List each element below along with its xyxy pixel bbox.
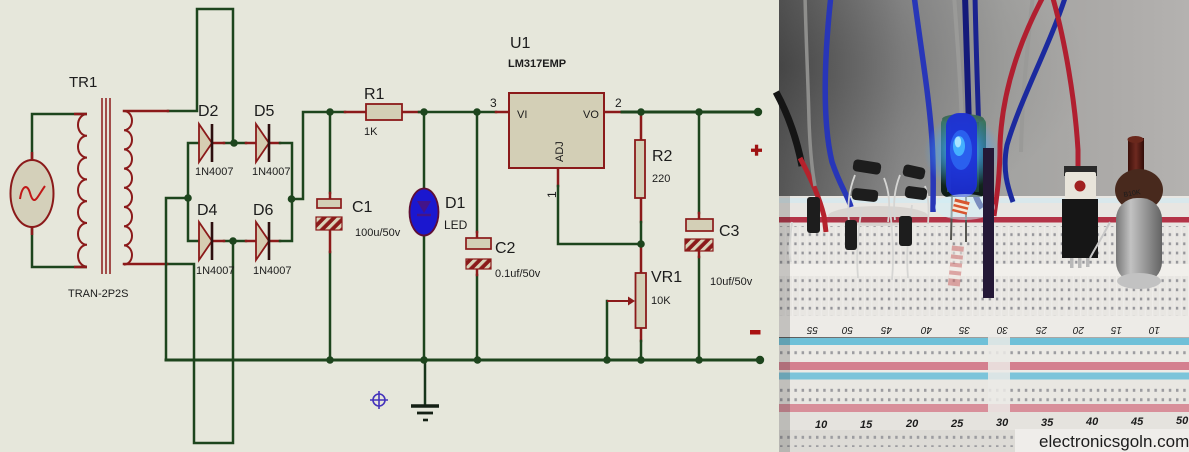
svg-text:30: 30 — [996, 417, 1009, 429]
jumper wire gray B — [954, 0, 962, 130]
diode D6 — [256, 222, 269, 260]
wire R2 to ADJ node — [640, 222, 643, 244]
wire ground tap — [424, 360, 427, 404]
node VR1 bottom — [637, 356, 645, 364]
svg-text:55: 55 — [806, 324, 818, 335]
wire C2 red stubs — [476, 232, 479, 275]
svg-text:40: 40 — [920, 324, 932, 335]
svg-text:15: 15 — [1110, 324, 1122, 335]
LED D1 — [410, 189, 439, 236]
wire D5 cathode out — [268, 142, 280, 145]
jumper wire blue 1 — [825, 0, 851, 207]
svg-text:VR1: VR1 — [651, 269, 682, 286]
svg-text:30: 30 — [996, 324, 1008, 335]
svg-text:D5: D5 — [254, 103, 275, 120]
svg-text:1K: 1K — [364, 126, 378, 138]
diode D2 — [199, 124, 212, 162]
svg-text:40: 40 — [1085, 416, 1099, 428]
svg-text:25: 25 — [1035, 324, 1048, 335]
node output minus end — [756, 356, 764, 364]
wire C3 branch — [698, 112, 701, 360]
node C2 bottom — [474, 356, 482, 364]
wire D6 cathode out — [268, 240, 280, 243]
node D2-D5 junction — [230, 139, 238, 147]
node C3 top — [695, 108, 703, 116]
svg-text:electronicsgoln.com: electronicsgoln.com — [1039, 432, 1189, 451]
svg-text:10: 10 — [815, 419, 828, 431]
node ADJ-R2-VR1 junction — [637, 240, 645, 248]
lit LED — [924, 114, 1000, 190]
LM317 TO-220 pins — [1070, 250, 1090, 268]
wire primary bottom red stubs — [32, 226, 87, 267]
wire R2 top stub — [640, 114, 643, 140]
AC source V1 — [11, 160, 54, 227]
striped resistor lower — [948, 245, 964, 286]
diode bodies — [807, 159, 928, 250]
svg-text:10uf/50v: 10uf/50v — [710, 276, 753, 288]
potentiometer VR1 wiper arrow — [607, 297, 635, 306]
wire primary top — [32, 114, 87, 161]
svg-text:0.1uf/50v: 0.1uf/50v — [495, 268, 541, 280]
wire C1 branch — [329, 112, 332, 360]
capacitor C1 — [316, 199, 342, 230]
board seam — [988, 334, 1010, 412]
svg-text:3: 3 — [490, 96, 497, 110]
origin marker — [370, 391, 388, 409]
svg-text:VO: VO — [583, 109, 599, 121]
dark header pin — [983, 148, 994, 298]
svg-text:C3: C3 — [719, 223, 740, 240]
jumper wire navy — [965, 0, 982, 208]
svg-text:LED: LED — [444, 218, 468, 232]
svg-text:50: 50 — [841, 324, 853, 335]
jumper wire gray — [1021, 0, 1033, 152]
svg-text:10K: 10K — [651, 295, 671, 307]
left shadow on board — [779, 196, 790, 452]
bottom board edge — [779, 430, 1189, 452]
transformer TR1 secondary coil — [124, 111, 132, 265]
wire secondary-top red stub — [124, 110, 168, 113]
wire VR1 bottom to rail — [640, 328, 643, 341]
svg-text:C1: C1 — [352, 199, 373, 216]
node C3 bottom — [695, 356, 703, 364]
wire bridge negative leg D2-D4 — [188, 143, 199, 241]
node D1-ground bottom — [420, 356, 428, 364]
ground — [411, 406, 439, 420]
wire U1 ADJ pin stub — [557, 168, 560, 186]
jumper wire gray A — [805, 0, 815, 186]
wire bridge mid top D2-D5 — [224, 142, 246, 145]
node D1 top — [420, 108, 428, 116]
svg-text:R2: R2 — [652, 148, 673, 165]
wire secondary-top to bridge (hat) — [168, 9, 233, 143]
svg-text:C2: C2 — [495, 240, 516, 257]
node positive junction — [288, 195, 296, 203]
jumper wire red left — [800, 158, 826, 232]
node D4-D6 junction — [229, 237, 237, 245]
cyan rail stripe 2 — [779, 373, 1189, 380]
jumper wire black — [776, 92, 802, 166]
svg-text:2: 2 — [615, 96, 622, 110]
svg-text:R1: R1 — [364, 86, 385, 103]
wire primary bottom — [32, 226, 87, 267]
svg-text:1N4007: 1N4007 — [252, 166, 291, 178]
potentiometer shaft — [1128, 138, 1144, 176]
svg-text:1: 1 — [545, 191, 559, 198]
striped resistor small — [952, 199, 970, 215]
svg-text:1N4007: 1N4007 — [195, 166, 234, 178]
svg-text:D4: D4 — [197, 202, 218, 219]
svg-text:25: 25 — [950, 418, 964, 430]
svg-text:1N4007: 1N4007 — [253, 265, 292, 277]
wire R2 bottom stub — [640, 198, 643, 222]
svg-text:220: 220 — [652, 173, 670, 185]
potentiometer lead — [1090, 222, 1110, 258]
breadboard white gap band — [779, 316, 1189, 337]
node wiper bottom — [603, 356, 611, 364]
wire R1 left stub — [345, 111, 366, 114]
wire positive up to top rail — [292, 112, 345, 199]
wire top rail R1 to U1 — [419, 111, 496, 114]
node negative junction — [184, 194, 192, 202]
diode D5 — [256, 124, 269, 162]
svg-text:35: 35 — [958, 324, 970, 335]
bottom numbers band — [779, 412, 1189, 430]
svg-text:10: 10 — [1148, 324, 1160, 335]
node C1 bottom — [326, 356, 334, 364]
schematic background — [0, 0, 779, 452]
jumper wire blue 2 — [914, 0, 933, 212]
svg-text:45: 45 — [1130, 416, 1144, 428]
wire D5 anode stub — [246, 142, 256, 145]
node output plus end — [754, 108, 762, 116]
wire D2 cathode stub — [212, 142, 224, 145]
svg-text:20: 20 — [1072, 324, 1085, 335]
wire secondary-bottom red stub — [124, 263, 167, 266]
component shadow — [828, 206, 928, 226]
svg-text:1N4007: 1N4007 — [196, 265, 235, 277]
electrolytic capacitor — [941, 117, 986, 197]
cyan rail stripe 1 — [779, 338, 1189, 345]
diode leads — [789, 175, 928, 280]
svg-text:100u/50v: 100u/50v — [355, 227, 401, 239]
wire bridge mid bottom D4-D6 — [224, 240, 246, 243]
wire negative to bottom rail — [166, 198, 188, 360]
wire D4 cathode stub — [212, 240, 224, 243]
potentiometer knob — [1116, 198, 1162, 283]
photo background — [779, 0, 1189, 452]
red rail stripe 2 — [779, 404, 1189, 412]
transformer TR1 core — [102, 98, 110, 274]
jumper wire blue 3 — [1005, 0, 1066, 202]
svg-text:ADJ: ADJ — [554, 141, 566, 162]
wire U1 pin3 stub — [496, 111, 509, 114]
output minus terminal — [750, 330, 761, 335]
jumper wire red right 2 — [1052, 0, 1078, 188]
wire secondary-bottom to D4-D6 midpoint (under loop) — [167, 241, 233, 443]
wire D6 anode stub — [246, 240, 256, 243]
transformer TR1 primary coil — [78, 114, 87, 267]
node C1 top — [326, 108, 334, 116]
diode D4 — [199, 222, 212, 260]
wire C1 red stubs — [329, 193, 332, 252]
svg-text:35: 35 — [1041, 417, 1054, 429]
mirrored row numbers — [806, 324, 1160, 335]
breadboard main band — [779, 196, 1189, 320]
resistor R2 — [635, 140, 645, 198]
output plus terminal — [751, 145, 762, 156]
wire primary top red stubs — [32, 114, 87, 161]
potentiometer VR1 body — [636, 273, 647, 328]
svg-text:D2: D2 — [198, 103, 219, 120]
svg-text:D1: D1 — [445, 195, 466, 212]
svg-text:LM317EMP: LM317EMP — [508, 58, 566, 70]
regulator U1 body — [509, 93, 604, 168]
node R2 top — [637, 108, 645, 116]
photo panel — [776, 0, 1189, 452]
svg-text:20: 20 — [905, 418, 919, 430]
wire ADJ to R2 bottom — [558, 186, 641, 244]
potentiometer body ring — [1115, 169, 1163, 211]
jumper wire navy 2 — [975, 0, 979, 138]
wire bottom rail — [166, 359, 760, 362]
wire VR1 wiper drop — [606, 301, 609, 360]
wire D1 branch — [423, 112, 426, 360]
svg-text:50: 50 — [1176, 415, 1189, 427]
wire top rail U1 to output — [622, 111, 758, 114]
svg-text:D6: D6 — [253, 202, 274, 219]
svg-text:15: 15 — [860, 419, 873, 431]
wire VR1 top — [640, 244, 643, 273]
wire U1 pin2 stub — [604, 111, 622, 114]
wire C2 branch — [476, 112, 479, 360]
wire bridge positive leg — [280, 143, 292, 241]
LM317 TO-220 body — [1064, 166, 1097, 176]
AC source sine — [20, 186, 45, 200]
svg-text:TRAN-2P2S: TRAN-2P2S — [68, 288, 129, 300]
wire R1 right stub — [402, 111, 419, 114]
jumper wire red right 1 — [994, 0, 1044, 216]
svg-text:45: 45 — [880, 324, 892, 335]
pink rail stripe — [779, 362, 1189, 370]
svg-text:VI: VI — [517, 109, 527, 121]
wire C3 red stubs — [698, 213, 701, 257]
svg-text:TR1: TR1 — [69, 74, 97, 91]
svg-text:U1: U1 — [510, 35, 531, 52]
watermark strip — [1015, 429, 1189, 452]
capacitor C2 — [466, 238, 491, 269]
node C2 top — [473, 108, 481, 116]
resistor R1 — [366, 104, 402, 120]
capacitor C3 — [685, 219, 713, 251]
